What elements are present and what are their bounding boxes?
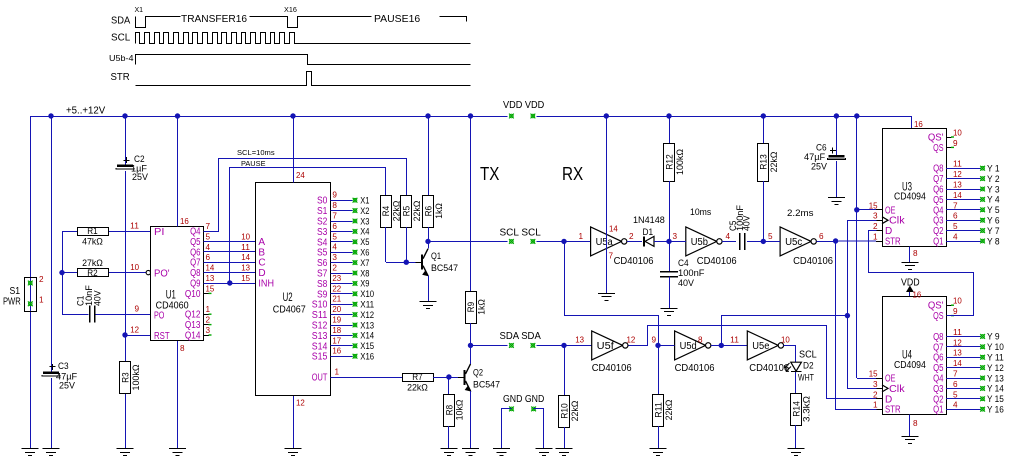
svg-text:Y 3: Y 3 xyxy=(987,184,1000,194)
svg-text:2: 2 xyxy=(629,232,634,241)
svg-text:Q13: Q13 xyxy=(185,320,201,331)
svg-text:U5a: U5a xyxy=(596,237,613,248)
svg-text:X10: X10 xyxy=(360,289,374,299)
svg-text:4: 4 xyxy=(726,232,731,241)
svg-text:5: 5 xyxy=(332,232,337,241)
svg-text:16: 16 xyxy=(913,291,922,300)
svg-text:15: 15 xyxy=(206,284,215,293)
svg-text:X7: X7 xyxy=(360,258,369,268)
svg-text:C4: C4 xyxy=(678,258,689,268)
svg-text:11: 11 xyxy=(130,222,139,231)
svg-text:BC547: BC547 xyxy=(473,380,500,390)
svg-text:Q8: Q8 xyxy=(933,164,944,175)
svg-text:Q2: Q2 xyxy=(933,226,944,237)
svg-text:GND GND: GND GND xyxy=(503,394,544,405)
svg-text:13: 13 xyxy=(206,274,215,283)
svg-text:Q5: Q5 xyxy=(933,195,944,206)
svg-text:SCL=10ms: SCL=10ms xyxy=(237,148,275,157)
svg-text:Q1: Q1 xyxy=(933,405,944,416)
svg-text:X12: X12 xyxy=(360,310,374,320)
svg-text:PAUSE16: PAUSE16 xyxy=(374,13,420,25)
svg-text:22kΩ: 22kΩ xyxy=(570,401,581,422)
svg-text:1kΩ: 1kΩ xyxy=(434,203,445,219)
svg-text:X14: X14 xyxy=(360,331,374,341)
svg-text:Y 1: Y 1 xyxy=(987,164,1000,174)
svg-text:3: 3 xyxy=(673,232,678,241)
svg-text:Q5: Q5 xyxy=(933,363,944,374)
svg-text:Y 5: Y 5 xyxy=(987,205,1000,215)
svg-text:Clk: Clk xyxy=(889,216,906,227)
svg-text:1: 1 xyxy=(873,233,878,242)
svg-text:X8: X8 xyxy=(360,268,369,278)
svg-text:D1: D1 xyxy=(643,227,654,237)
svg-text:25V: 25V xyxy=(132,172,148,182)
svg-text:Q7: Q7 xyxy=(933,174,944,185)
svg-text:S8: S8 xyxy=(317,279,328,290)
svg-text:C6: C6 xyxy=(816,143,827,153)
svg-text:TRANSFER16: TRANSFER16 xyxy=(181,13,247,25)
svg-text:22kΩ: 22kΩ xyxy=(664,400,675,421)
svg-text:PWR: PWR xyxy=(3,297,21,308)
svg-text:S4: S4 xyxy=(317,237,328,248)
svg-text:47kΩ: 47kΩ xyxy=(82,237,103,248)
svg-text:R10: R10 xyxy=(559,403,570,419)
svg-text:12: 12 xyxy=(953,338,962,347)
svg-text:SCL SCL: SCL SCL xyxy=(500,228,542,239)
svg-text:14: 14 xyxy=(609,225,618,234)
svg-text:S3: S3 xyxy=(317,227,328,238)
svg-text:TX: TX xyxy=(480,164,499,184)
svg-text:U5f: U5f xyxy=(597,341,614,352)
svg-text:1: 1 xyxy=(578,232,583,241)
svg-text:Q9: Q9 xyxy=(190,279,201,290)
svg-text:S10: S10 xyxy=(312,300,328,311)
svg-text:X4: X4 xyxy=(360,227,369,237)
svg-text:2: 2 xyxy=(332,264,337,273)
svg-text:PAUSE: PAUSE xyxy=(241,159,266,168)
svg-text:20: 20 xyxy=(332,305,341,314)
svg-text:Y 14: Y 14 xyxy=(987,384,1004,394)
svg-text:13: 13 xyxy=(953,181,962,190)
svg-text:12: 12 xyxy=(130,326,139,335)
svg-text:C: C xyxy=(258,258,265,269)
svg-text:S7: S7 xyxy=(317,269,328,280)
svg-text:6: 6 xyxy=(819,232,824,241)
svg-text:X15: X15 xyxy=(360,341,374,351)
svg-text:14: 14 xyxy=(241,253,250,262)
svg-text:3: 3 xyxy=(873,212,878,221)
svg-text:VDD VDD: VDD VDD xyxy=(503,100,544,111)
svg-text:Q6: Q6 xyxy=(933,185,944,196)
svg-text:BC547: BC547 xyxy=(431,263,458,273)
svg-text:Q1: Q1 xyxy=(431,251,441,261)
svg-text:U2: U2 xyxy=(283,292,293,304)
svg-text:QS': QS' xyxy=(928,133,944,144)
svg-text:C2: C2 xyxy=(134,154,145,164)
svg-text:Q10: Q10 xyxy=(185,289,201,300)
svg-text:16: 16 xyxy=(914,120,923,129)
svg-text:U5c: U5c xyxy=(785,237,802,248)
svg-text:QS: QS xyxy=(933,311,944,322)
svg-text:15: 15 xyxy=(241,274,250,283)
svg-text:5: 5 xyxy=(768,232,773,241)
svg-text:11: 11 xyxy=(241,243,250,252)
svg-text:CD4060: CD4060 xyxy=(156,299,189,311)
svg-text:X1: X1 xyxy=(360,196,369,206)
svg-text:12: 12 xyxy=(296,399,305,408)
svg-text:13: 13 xyxy=(241,264,250,273)
svg-text:Clk: Clk xyxy=(889,384,906,395)
svg-text:7: 7 xyxy=(609,252,614,261)
svg-text:Y 6: Y 6 xyxy=(987,216,1000,226)
svg-text:Q12: Q12 xyxy=(185,310,201,321)
svg-text:6: 6 xyxy=(953,380,958,389)
svg-text:R4: R4 xyxy=(381,206,392,216)
svg-text:INH: INH xyxy=(258,279,274,290)
svg-text:Y 15: Y 15 xyxy=(987,394,1004,404)
svg-text:4: 4 xyxy=(332,243,337,252)
svg-text:S15: S15 xyxy=(312,352,328,363)
svg-text:X13: X13 xyxy=(360,320,374,330)
svg-text:7: 7 xyxy=(332,212,337,221)
svg-text:9: 9 xyxy=(332,191,337,200)
svg-text:Q8: Q8 xyxy=(933,332,944,343)
svg-text:R12: R12 xyxy=(664,154,675,170)
svg-text:+5..+12V: +5..+12V xyxy=(66,106,106,117)
svg-text:10kΩ: 10kΩ xyxy=(455,400,466,421)
svg-text:D: D xyxy=(258,268,265,279)
svg-text:10: 10 xyxy=(953,129,962,138)
svg-text:Y 11: Y 11 xyxy=(987,353,1004,363)
svg-text:D: D xyxy=(885,394,892,405)
svg-text:U5b: U5b xyxy=(691,237,708,248)
svg-text:X9: X9 xyxy=(360,279,369,289)
svg-text:Y 8: Y 8 xyxy=(987,236,1000,246)
svg-text:21: 21 xyxy=(332,295,341,304)
svg-text:S0: S0 xyxy=(317,196,328,207)
svg-text:3.3kΩ: 3.3kΩ xyxy=(802,396,813,422)
svg-text:CD40106: CD40106 xyxy=(793,255,833,267)
svg-text:STR: STR xyxy=(885,237,901,248)
svg-text:2: 2 xyxy=(873,390,878,399)
svg-text:X2: X2 xyxy=(360,206,369,216)
svg-text:R11: R11 xyxy=(653,402,664,418)
svg-text:8: 8 xyxy=(913,249,918,258)
svg-text:10: 10 xyxy=(130,263,139,272)
svg-text:2: 2 xyxy=(206,316,211,325)
svg-text:4: 4 xyxy=(953,401,958,410)
svg-text:Q3: Q3 xyxy=(933,216,944,227)
svg-text:U5b-4: U5b-4 xyxy=(109,54,134,63)
svg-text:PI: PI xyxy=(154,227,164,238)
svg-text:CD4094: CD4094 xyxy=(894,359,926,371)
svg-text:Q2: Q2 xyxy=(933,394,944,405)
svg-text:12: 12 xyxy=(953,170,962,179)
svg-text:11: 11 xyxy=(730,336,739,345)
svg-text:STR: STR xyxy=(111,72,130,83)
svg-text:SDA SDA: SDA SDA xyxy=(500,331,542,342)
svg-text:8: 8 xyxy=(332,201,337,210)
svg-text:X6: X6 xyxy=(360,248,369,258)
svg-text:100kΩ: 100kΩ xyxy=(675,149,686,175)
svg-text:8: 8 xyxy=(913,419,918,428)
svg-text:16: 16 xyxy=(332,347,341,356)
svg-text:S11: S11 xyxy=(312,310,328,321)
svg-text:Y 10: Y 10 xyxy=(987,342,1004,352)
svg-text:Q5: Q5 xyxy=(190,237,201,248)
svg-text:S5: S5 xyxy=(317,248,328,259)
svg-text:S14: S14 xyxy=(312,341,328,352)
svg-text:6: 6 xyxy=(953,212,958,221)
svg-text:22: 22 xyxy=(332,284,341,293)
svg-text:16: 16 xyxy=(180,217,189,226)
svg-text:X16: X16 xyxy=(284,5,297,14)
svg-text:1: 1 xyxy=(39,296,44,305)
svg-text:Y 9: Y 9 xyxy=(987,332,1000,342)
svg-text:RST: RST xyxy=(154,331,170,342)
svg-text:1N4148: 1N4148 xyxy=(633,215,665,225)
svg-text:Q8: Q8 xyxy=(190,268,201,279)
svg-text:15: 15 xyxy=(869,201,878,210)
svg-text:47µF: 47µF xyxy=(804,152,826,162)
svg-text:CD40106: CD40106 xyxy=(697,255,737,267)
svg-text:1: 1 xyxy=(206,305,211,314)
svg-text:11: 11 xyxy=(953,160,962,169)
svg-text:Y 2: Y 2 xyxy=(987,174,1000,184)
svg-text:7: 7 xyxy=(953,201,958,210)
svg-text:17: 17 xyxy=(332,336,341,345)
svg-text:8: 8 xyxy=(180,344,185,353)
svg-text:6: 6 xyxy=(332,222,337,231)
svg-text:9: 9 xyxy=(953,139,958,148)
svg-text:10: 10 xyxy=(241,232,250,241)
svg-text:S6: S6 xyxy=(317,258,328,269)
svg-text:S1: S1 xyxy=(317,206,328,217)
svg-text:Q4: Q4 xyxy=(190,227,201,238)
svg-text:CD4067: CD4067 xyxy=(273,304,306,316)
svg-text:QS': QS' xyxy=(928,301,944,312)
svg-text:SCL: SCL xyxy=(799,350,817,361)
svg-text:40V: 40V xyxy=(742,215,753,231)
svg-text:2: 2 xyxy=(873,222,878,231)
svg-text:8: 8 xyxy=(698,336,703,345)
svg-text:U5e: U5e xyxy=(752,341,769,352)
svg-text:3: 3 xyxy=(873,380,878,389)
svg-text:R3: R3 xyxy=(120,372,131,382)
svg-text:A: A xyxy=(258,237,265,248)
svg-text:14: 14 xyxy=(206,264,215,273)
svg-text:Y 4: Y 4 xyxy=(987,195,1000,205)
svg-text:24: 24 xyxy=(296,171,305,180)
svg-text:QS: QS xyxy=(933,143,944,154)
svg-text:40V: 40V xyxy=(93,290,104,306)
svg-text:S9: S9 xyxy=(317,289,328,300)
svg-text:15: 15 xyxy=(869,370,878,379)
svg-text:Q2: Q2 xyxy=(473,368,483,378)
svg-text:Y 7: Y 7 xyxy=(987,226,1000,236)
svg-text:S13: S13 xyxy=(312,331,328,342)
svg-text:X5: X5 xyxy=(360,237,369,247)
svg-text:1: 1 xyxy=(335,368,340,377)
svg-text:5: 5 xyxy=(206,232,211,241)
svg-text:S1: S1 xyxy=(10,286,21,297)
svg-text:PO: PO xyxy=(154,311,165,322)
svg-text:R14: R14 xyxy=(791,401,802,417)
svg-text:5: 5 xyxy=(953,222,958,231)
svg-text:13: 13 xyxy=(953,349,962,358)
svg-text:R5: R5 xyxy=(402,206,413,216)
svg-text:R8: R8 xyxy=(444,405,455,415)
svg-text:U5d: U5d xyxy=(680,341,697,352)
svg-text:12: 12 xyxy=(627,336,636,345)
svg-text:OE: OE xyxy=(885,374,896,385)
svg-text:1kΩ: 1kΩ xyxy=(476,299,487,315)
svg-text:Q6: Q6 xyxy=(190,247,201,258)
svg-text:X1: X1 xyxy=(135,5,144,14)
svg-text:PO': PO' xyxy=(154,269,170,280)
svg-text:3: 3 xyxy=(206,326,211,335)
svg-text:5: 5 xyxy=(953,390,958,399)
svg-text:SDA: SDA xyxy=(111,16,131,27)
svg-text:14: 14 xyxy=(953,359,962,368)
svg-text:CD40106: CD40106 xyxy=(614,255,654,267)
svg-text:22kΩ: 22kΩ xyxy=(769,152,780,173)
svg-text:23: 23 xyxy=(332,274,341,283)
svg-text:SCL: SCL xyxy=(111,33,131,44)
svg-text:CD40106: CD40106 xyxy=(749,362,789,374)
svg-text:6: 6 xyxy=(206,253,211,262)
svg-text:9: 9 xyxy=(651,336,656,345)
svg-text:Q4: Q4 xyxy=(933,374,944,385)
svg-text:25V: 25V xyxy=(811,162,827,172)
svg-text:X16: X16 xyxy=(360,352,374,362)
svg-text:22kΩ: 22kΩ xyxy=(412,201,423,222)
svg-text:R9: R9 xyxy=(466,302,477,312)
svg-text:2.2ms: 2.2ms xyxy=(787,208,814,218)
svg-text:9: 9 xyxy=(134,305,139,314)
svg-text:19: 19 xyxy=(332,316,341,325)
svg-text:10ms: 10ms xyxy=(690,207,712,217)
svg-text:40V: 40V xyxy=(678,278,694,288)
svg-text:WHT: WHT xyxy=(798,373,814,383)
svg-text:25V: 25V xyxy=(59,381,75,391)
svg-text:Q7: Q7 xyxy=(933,342,944,353)
svg-text:B: B xyxy=(258,247,265,258)
svg-text:C3: C3 xyxy=(58,361,69,371)
svg-text:Q6: Q6 xyxy=(933,353,944,364)
svg-text:14: 14 xyxy=(953,191,962,200)
svg-text:4: 4 xyxy=(206,243,211,252)
svg-text:STR: STR xyxy=(885,405,901,416)
svg-text:OUT: OUT xyxy=(312,373,328,384)
svg-text:3: 3 xyxy=(332,253,337,262)
svg-text:CD40106: CD40106 xyxy=(675,362,715,374)
svg-text:CD40106: CD40106 xyxy=(592,362,632,374)
svg-text:7: 7 xyxy=(953,370,958,379)
svg-text:2: 2 xyxy=(39,275,44,284)
svg-text:S2: S2 xyxy=(317,217,328,228)
svg-text:11: 11 xyxy=(953,328,962,337)
svg-text:OE: OE xyxy=(885,205,896,216)
svg-text:D2: D2 xyxy=(803,361,814,371)
svg-text:13: 13 xyxy=(575,336,584,345)
svg-text:X3: X3 xyxy=(360,216,369,226)
svg-text:27kΩ: 27kΩ xyxy=(82,258,103,269)
svg-text:Q4: Q4 xyxy=(933,205,944,216)
svg-text:10: 10 xyxy=(953,297,962,306)
svg-text:18: 18 xyxy=(332,326,341,335)
svg-text:D: D xyxy=(885,226,892,237)
svg-text:S12: S12 xyxy=(312,321,328,332)
svg-text:100kΩ: 100kΩ xyxy=(131,365,142,391)
svg-text:Q14: Q14 xyxy=(185,331,201,342)
svg-text:Q7: Q7 xyxy=(190,258,201,269)
svg-text:22kΩ: 22kΩ xyxy=(407,383,428,394)
svg-text:Y 12: Y 12 xyxy=(987,363,1004,373)
svg-text:9: 9 xyxy=(953,307,958,316)
svg-text:4: 4 xyxy=(953,233,958,242)
svg-text:R13: R13 xyxy=(759,154,770,170)
svg-text:7: 7 xyxy=(206,222,211,231)
svg-text:Q1: Q1 xyxy=(933,237,944,248)
svg-text:1: 1 xyxy=(873,401,878,410)
svg-text:CD4094: CD4094 xyxy=(894,191,926,203)
svg-text:R6: R6 xyxy=(423,206,434,216)
svg-text:100nF: 100nF xyxy=(678,268,705,278)
svg-text:X11: X11 xyxy=(360,300,374,310)
svg-text:10: 10 xyxy=(781,336,790,345)
svg-text:RX: RX xyxy=(562,164,583,184)
svg-text:R2: R2 xyxy=(87,268,97,279)
svg-text:Y 13: Y 13 xyxy=(987,373,1004,383)
svg-text:Q3: Q3 xyxy=(933,384,944,395)
svg-text:Y 16: Y 16 xyxy=(987,405,1004,415)
